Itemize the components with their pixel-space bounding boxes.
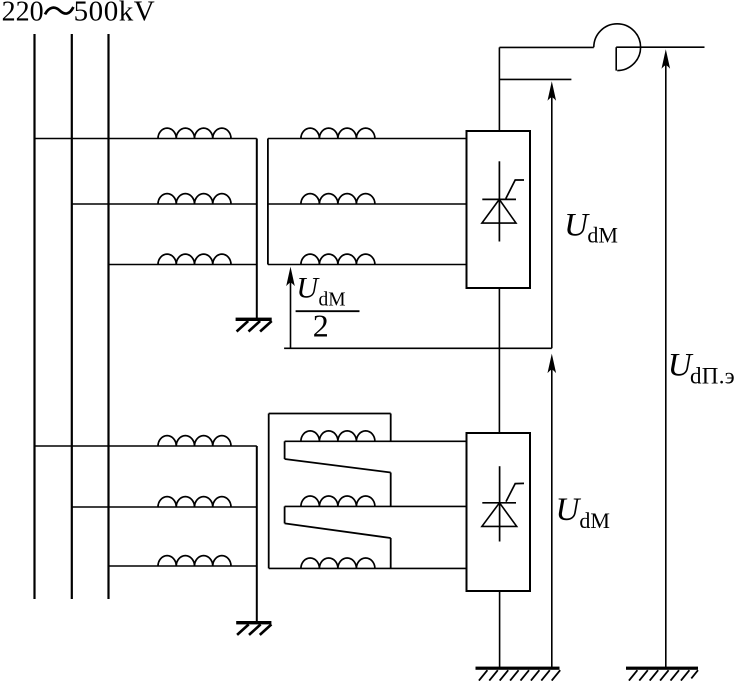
fraction bar of UdM/2	[296, 310, 360, 312]
arrow UdM/2 head	[286, 267, 295, 287]
node label 220~500kV busbar voltage	[2, 0, 156, 28]
wire T2 primary phase B tap	[72, 506, 257, 508]
transformer T2 primary winding phase B	[158, 497, 231, 507]
svg-text:220: 220	[2, 0, 44, 28]
transformer T2 delta winding phase A	[301, 431, 375, 441]
svg-text:dП.э: dП.э	[690, 363, 735, 388]
transformer T2 delta winding phase C	[301, 558, 375, 568]
ground DC station	[476, 667, 561, 681]
wire T1 primary phase C tap	[109, 264, 257, 266]
thyristor V2 cathode bar	[482, 502, 516, 504]
wire T2 primary phase A tap	[35, 445, 257, 447]
arrow UdM/2 shaft	[290, 282, 292, 349]
wire midpoint reference	[284, 347, 552, 349]
wire T2 delta phase A to valve	[285, 440, 467, 442]
label UdM lower	[556, 492, 610, 533]
wire valve V1 bottom to valve V2 top	[498, 288, 500, 433]
wire T2 delta diagonal 2	[285, 523, 391, 538]
arrow UdM upper head	[548, 81, 557, 101]
wire DC pole top	[499, 46, 593, 48]
wire T1 secondary phase A to valve	[268, 138, 467, 140]
arrow UdPe shaft	[665, 65, 667, 668]
arrow UdM upper shaft	[551, 97, 553, 349]
wire T2 delta right drop 2	[390, 473, 392, 507]
wire T1 secondary phase B to valve	[268, 203, 467, 205]
svg-text:U: U	[556, 492, 582, 528]
wire UdM upper reference stub	[499, 78, 571, 80]
wire T1 primary phase A tap	[35, 138, 257, 140]
transformer T1 primary winding phase B	[158, 194, 231, 204]
thyristor valve bridge V2 box	[467, 433, 531, 591]
thyristor valve bridge V1 box	[467, 131, 531, 288]
arrow UdPe head	[662, 49, 671, 68]
transformer T2 delta winding phase B	[301, 496, 375, 506]
label UdM upper	[564, 208, 618, 248]
svg-text:U: U	[564, 208, 590, 244]
bus wire phase B	[71, 34, 73, 599]
svg-text:U: U	[296, 272, 320, 305]
transformer T1 secondary winding phase B	[301, 194, 375, 204]
transformer T1 secondary winding phase A	[301, 128, 375, 138]
svg-text:500kV: 500kV	[74, 0, 156, 28]
thyristor V1 cathode bar	[482, 198, 516, 200]
wire T2 delta phase B to valve	[285, 505, 467, 507]
bus wire phase C	[107, 34, 109, 599]
wire T2 delta phase C to valve	[269, 567, 467, 569]
transformer T1 primary winding phase A	[158, 128, 231, 138]
arrow UdM lower head	[548, 354, 557, 374]
transformer T1 primary winding phase C	[158, 254, 231, 264]
wire T1 secondary phase C to valve	[268, 264, 467, 266]
transformer T2 primary winding phase C	[158, 556, 231, 566]
svg-text:2: 2	[313, 307, 329, 343]
wire T2 primary neutral bus	[256, 446, 258, 621]
svg-text:dM: dM	[579, 508, 610, 533]
label UdM/2	[296, 272, 345, 344]
wire T1 secondary star rail	[267, 139, 269, 265]
transformer T2 primary winding phase A	[158, 436, 231, 446]
tilde of 220~500kV label	[45, 7, 73, 14]
ground T2 neutral	[236, 621, 271, 635]
thyristor V1 gate	[506, 180, 524, 199]
wire T2 delta right drop 1	[390, 414, 392, 442]
wire T2 delta diagonal 1	[285, 459, 391, 473]
svg-text:dM: dM	[587, 223, 618, 248]
ground T1 neutral	[236, 318, 272, 332]
thyristor V2 symbol lead	[499, 466, 501, 541]
wire valve V2 bottom to ground	[499, 591, 501, 667]
wire T2 delta top rail	[269, 413, 391, 415]
wire T2 delta left rail	[268, 414, 270, 569]
wire T2 delta step 2	[284, 506, 286, 523]
wire DC pole to line	[616, 46, 704, 48]
wire T2 delta right drop 3	[390, 538, 392, 568]
wire valve V1 top to DC pole	[498, 47, 500, 131]
smoothing reactor loop	[594, 24, 641, 71]
thyristor V1 triangle	[482, 199, 516, 223]
thyristor V2 gate	[506, 483, 524, 501]
wire T2 primary phase C tap	[109, 565, 257, 567]
wire T1 primary phase B tap	[72, 203, 257, 205]
bus wire phase A	[33, 34, 35, 599]
transformer T1 secondary winding phase C	[301, 254, 375, 264]
wire T2 delta step 1	[284, 441, 286, 459]
wire T1 primary neutral bus	[256, 139, 258, 319]
arrow UdM lower shaft	[551, 369, 553, 667]
thyristor V2 triangle	[482, 503, 517, 527]
ground electrode	[626, 667, 698, 681]
label UdPe	[668, 348, 735, 389]
thyristor V1 symbol lead	[498, 161, 500, 241]
